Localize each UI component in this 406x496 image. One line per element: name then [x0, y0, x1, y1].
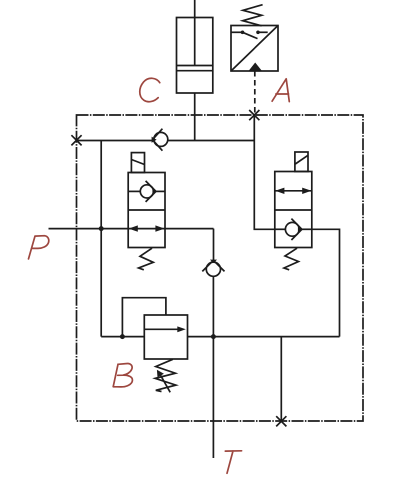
- wire P line: [49, 228, 214, 230]
- plugged port X bottom: [276, 416, 286, 426]
- wire left branch down: [100, 141, 102, 337]
- cylinder C body: [177, 18, 213, 94]
- pressure switch diagonal: [231, 26, 278, 72]
- switch contact left: [231, 31, 243, 33]
- check valve in V2 bottom position: [275, 228, 286, 230]
- pilot arrowhead into switch: [249, 63, 263, 72]
- switch contact lever: [243, 32, 258, 38]
- junction P x left branch: [99, 226, 104, 231]
- junction T x B output: [211, 334, 216, 339]
- junction pilot tap: [120, 334, 125, 339]
- wire drain branch to plug: [280, 337, 282, 421]
- wire from node A down to right valve: [254, 115, 274, 229]
- wire T line: [212, 276, 214, 458]
- pilot loop of B: [122, 298, 165, 337]
- check valve in V1 top position: [128, 190, 140, 192]
- check valve CV1: [154, 132, 168, 146]
- wire B input: [101, 336, 144, 338]
- label C: [140, 78, 160, 101]
- valve V1 body: [128, 173, 165, 248]
- pressure switch spring: [243, 5, 263, 26]
- spring B (adjustable): [155, 359, 176, 391]
- label T: [225, 451, 241, 474]
- V2 flow path arrows: [275, 190, 312, 192]
- wire cylinder port to node: [194, 93, 196, 141]
- label B: [113, 364, 132, 387]
- relief valve B body: [144, 315, 187, 359]
- cylinder piston rod: [194, 0, 196, 66]
- spring V1: [139, 248, 154, 270]
- check valve CV4: [210, 260, 217, 263]
- label P: [29, 236, 49, 259]
- solenoid V1: [131, 153, 144, 173]
- plugged port X left: [71, 135, 81, 145]
- V1 flow path arrows: [129, 225, 138, 231]
- pilot line (dashed) A to port: [254, 71, 256, 115]
- wire P to check valve CV4: [213, 229, 215, 261]
- wire main upper rail: [77, 140, 153, 142]
- cylinder piston: [177, 65, 213, 67]
- wire V2 out right and down: [312, 229, 340, 336]
- adjustment arrow: [159, 373, 170, 393]
- switch contact right: [256, 31, 260, 35]
- label A: [272, 79, 289, 102]
- pressure switch U1 box: [231, 26, 278, 72]
- relief valve arrow: [144, 328, 178, 330]
- solenoid V2: [295, 152, 308, 172]
- spring V2: [284, 248, 299, 270]
- plugged port X at node A: [249, 110, 259, 120]
- wire B output: [188, 336, 340, 338]
- manifold enclosure (dash-dot border): [77, 115, 364, 421]
- valve V2 body: [275, 172, 312, 248]
